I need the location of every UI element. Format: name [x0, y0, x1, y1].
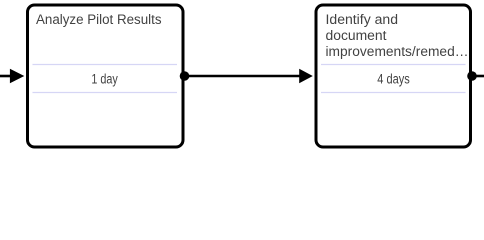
svg-text:Analyze Pilot Results: Analyze Pilot Results: [36, 12, 162, 27]
svg-text:document: document: [326, 28, 387, 43]
svg-text:1 day: 1 day: [91, 71, 118, 86]
svg-text:Identify and: Identify and: [326, 12, 399, 27]
svg-text:improvements/remed…: improvements/remed…: [326, 44, 469, 59]
svg-text:4 days: 4 days: [377, 71, 410, 86]
